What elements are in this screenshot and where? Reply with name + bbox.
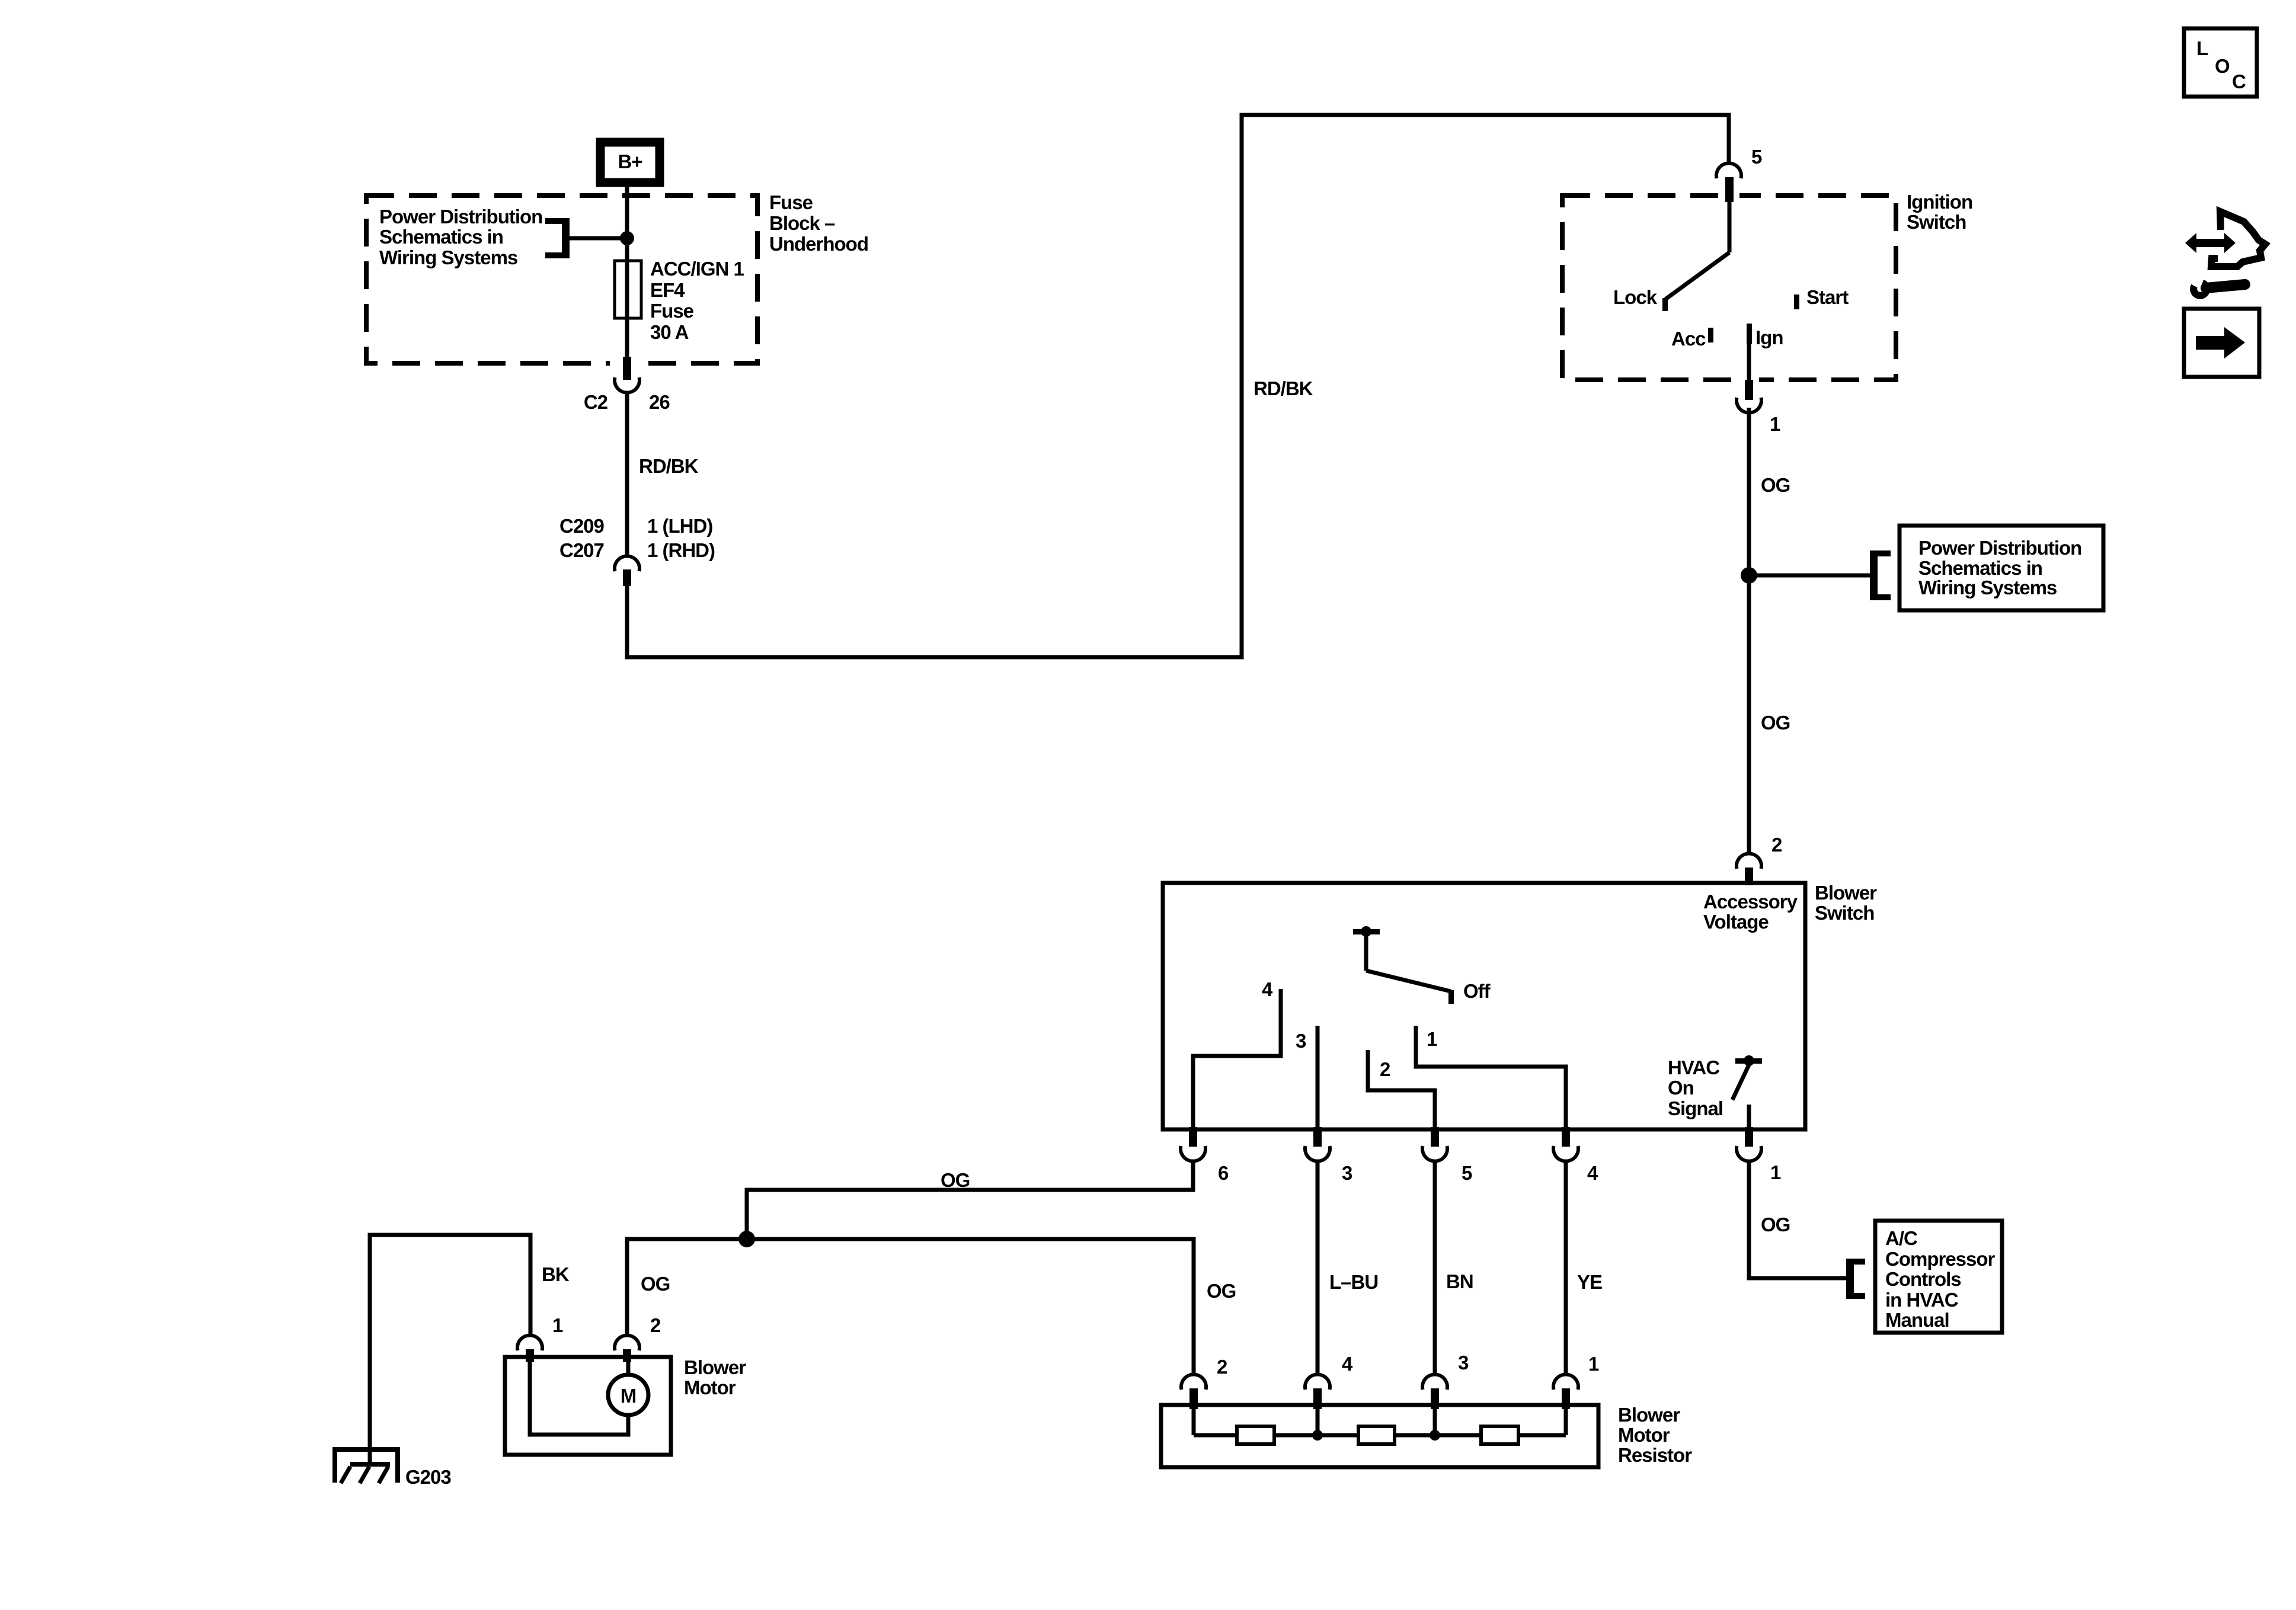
svg-text:OG: OG <box>641 1273 670 1295</box>
svg-text:in HVAC: in HVAC <box>1885 1289 1958 1311</box>
ignition Lock contact tick <box>1662 298 1668 311</box>
blower switch pin 5 <box>1422 1127 1447 1161</box>
svg-text:C209: C209 <box>559 515 605 537</box>
svg-text:26: 26 <box>649 391 670 413</box>
svg-text:Blower: Blower <box>684 1356 746 1378</box>
blower switch contact 2 wire <box>1368 1050 1435 1127</box>
svg-text:Ign: Ign <box>1755 327 1783 348</box>
svg-text:Controls: Controls <box>1885 1268 1961 1290</box>
junction node on B+ feed <box>620 231 634 245</box>
svg-text:RD/BK: RD/BK <box>1253 377 1313 399</box>
label Blower Switch <box>1815 882 1877 924</box>
fuse block underhood label <box>769 191 868 255</box>
blower switch pin 6 <box>1181 1127 1205 1161</box>
wire OG ignition to blower switch <box>1747 408 1751 854</box>
svg-text:4: 4 <box>1262 978 1273 1000</box>
svg-text:5: 5 <box>1462 1162 1472 1184</box>
svg-text:Power Distribution: Power Distribution <box>1918 537 2081 559</box>
blower switch pin 1 <box>1737 1127 1761 1161</box>
resistor internal feed 3 <box>1433 1409 1437 1435</box>
ground G203 symbol <box>332 1447 400 1483</box>
svg-text:3: 3 <box>1342 1162 1352 1184</box>
fuse block underhood dashed box <box>366 196 757 363</box>
connector resistor pin 4 <box>1305 1374 1330 1409</box>
svg-text:1: 1 <box>1770 1161 1781 1183</box>
svg-text:Ignition: Ignition <box>1907 191 1972 213</box>
svg-text:OG: OG <box>1761 474 1790 496</box>
label Blower Motor Resistor <box>1618 1404 1692 1466</box>
ignition Ign output wire <box>1747 341 1751 380</box>
svg-text:Wiring Systems: Wiring Systems <box>1918 577 2057 598</box>
svg-text:L: L <box>2196 37 2208 59</box>
icon vehicle outline <box>2211 212 2265 267</box>
HVAC on signal contact wire <box>1747 1105 1751 1127</box>
svg-text:Off: Off <box>1463 980 1491 1002</box>
resistor internal feed 1 <box>1564 1409 1568 1435</box>
ignition switch dashed box <box>1562 196 1896 380</box>
svg-text:OG: OG <box>1207 1280 1236 1302</box>
svg-text:Underhood: Underhood <box>769 233 868 255</box>
svg-text:4: 4 <box>1587 1162 1598 1184</box>
bracket for power distribution reference (fuse block) <box>545 218 570 258</box>
icon arrow box <box>2184 309 2259 377</box>
wire BK blower motor to ground <box>370 1235 530 1449</box>
svg-text:BN: BN <box>1446 1270 1473 1292</box>
blower switch pin 4 <box>1553 1127 1578 1161</box>
svg-text:HVAC: HVAC <box>1668 1057 1719 1078</box>
svg-text:ACC/IGN 1: ACC/IGN 1 <box>650 258 744 280</box>
blower switch contact 1 wire <box>1416 1026 1566 1127</box>
ignition Ign contact tick <box>1747 324 1752 344</box>
svg-text:Switch: Switch <box>1815 902 1874 924</box>
off switch lever <box>1366 971 1451 991</box>
fuse value labels <box>650 258 744 343</box>
ignition Start contact tick <box>1794 295 1799 309</box>
svg-text:5: 5 <box>1751 146 1762 168</box>
svg-text:30 A: 30 A <box>650 321 689 343</box>
connector C209/C207 cup <box>615 556 639 571</box>
wire BN <box>1433 1161 1437 1375</box>
svg-text:Resistor: Resistor <box>1618 1444 1692 1466</box>
svg-text:L–BU: L–BU <box>1329 1271 1378 1293</box>
wire OG pin 6 to junction <box>747 1161 1193 1239</box>
blower motor internal wiring <box>530 1361 628 1435</box>
svg-text:2: 2 <box>650 1314 661 1336</box>
connector blower switch pin 2 pin <box>1745 868 1753 885</box>
svg-text:1: 1 <box>1427 1028 1437 1050</box>
wire OG to A/C compressor controls <box>1749 1161 1846 1278</box>
svg-text:Schematics in: Schematics in <box>379 226 503 248</box>
wire OG horizontal run to blower motor and resistor pin 2 <box>627 1239 1194 1375</box>
svg-text:C2: C2 <box>584 391 608 413</box>
svg-text:OG: OG <box>1761 1214 1790 1235</box>
svg-text:3: 3 <box>1458 1352 1469 1374</box>
wire YE <box>1564 1161 1568 1375</box>
svg-text:Motor: Motor <box>684 1377 736 1398</box>
svg-text:4: 4 <box>1342 1353 1353 1375</box>
motor M circle <box>608 1375 648 1415</box>
label Accessory Voltage <box>1703 891 1798 933</box>
svg-text:G203: G203 <box>405 1466 451 1488</box>
svg-text:M: M <box>621 1385 637 1407</box>
resistor bus node 3 <box>1430 1430 1440 1441</box>
svg-text:1 (RHD): 1 (RHD) <box>647 539 715 561</box>
gap in dashed edge at ignition pin 5 <box>1721 190 1739 201</box>
label HVAC On Signal <box>1668 1057 1723 1119</box>
svg-text:Fuse: Fuse <box>769 191 813 213</box>
svg-text:3: 3 <box>1296 1030 1306 1052</box>
A/C compressor controls box <box>1875 1221 2002 1333</box>
wire branch to power distribution reference (right) <box>1749 574 1870 578</box>
off contact tick <box>1448 990 1454 1004</box>
svg-text:OG: OG <box>941 1169 970 1191</box>
gap in dashed edge at connector C2 pin <box>610 358 644 369</box>
svg-text:Block –: Block – <box>769 212 835 234</box>
svg-text:Acc: Acc <box>1671 328 1706 350</box>
connector C209/C207 pin <box>623 569 631 586</box>
ignition Acc contact tick <box>1708 328 1713 343</box>
svg-text:C: C <box>2232 71 2246 92</box>
connector ignition pin 1 cup <box>1737 398 1761 413</box>
fuse ACC/IGN 1 EF4 30 A symbol <box>615 261 641 318</box>
connector ignition pin 5 cup <box>1716 163 1741 178</box>
connector ignition pin 1 pin <box>1745 380 1753 400</box>
resistor internal feed 4 <box>1316 1409 1320 1435</box>
svg-text:Motor: Motor <box>1618 1424 1670 1446</box>
connector blower motor pin 2 <box>615 1335 639 1362</box>
svg-text:Wiring Systems: Wiring Systems <box>379 247 517 268</box>
text Power Distribution Schematics in Wiring Systems (right) <box>1918 537 2081 598</box>
svg-text:Schematics in: Schematics in <box>1918 557 2042 579</box>
connector resistor pin 3 <box>1422 1374 1447 1409</box>
blower motor box <box>505 1357 671 1455</box>
svg-text:A/C: A/C <box>1885 1227 1917 1249</box>
resistor internal feed 2 <box>1192 1409 1196 1435</box>
icon double arrow <box>2185 233 2236 253</box>
svg-text:OG: OG <box>1761 712 1790 734</box>
connector blower switch pin 2 cup <box>1737 853 1761 869</box>
blower switch contact 3 wire <box>1316 1026 1320 1127</box>
connector ignition pin 5 pin <box>1725 177 1734 202</box>
svg-text:RD/BK: RD/BK <box>639 455 699 477</box>
wire RD/BK C2 to C209 <box>625 393 629 556</box>
svg-text:1: 1 <box>552 1314 563 1336</box>
icon wrench <box>2193 283 2245 296</box>
svg-text:6: 6 <box>1218 1162 1229 1184</box>
bracket for A/C compressor reference <box>1846 1259 1865 1299</box>
junction node OG <box>738 1231 755 1247</box>
svg-text:1: 1 <box>1770 413 1780 435</box>
svg-text:Signal: Signal <box>1668 1097 1723 1119</box>
svg-text:Voltage: Voltage <box>1703 911 1769 933</box>
wire branch to power distribution reference <box>570 236 627 241</box>
HVAC on signal lever <box>1732 1065 1749 1100</box>
resistor element R1 <box>1237 1426 1274 1444</box>
svg-text:Compressor: Compressor <box>1885 1248 1996 1270</box>
ignition switch label <box>1907 191 1972 233</box>
battery terminal B+ box <box>600 142 660 183</box>
wire RD/BK long run to ignition switch <box>627 115 1729 657</box>
svg-text:2: 2 <box>1771 834 1782 856</box>
HVAC on signal switch pivot <box>1735 1055 1762 1066</box>
svg-text:BK: BK <box>542 1263 570 1285</box>
svg-text:Power Distribution: Power Distribution <box>379 206 542 228</box>
svg-text:On: On <box>1668 1077 1694 1099</box>
text A/C Compressor Controls in HVAC Manual <box>1885 1227 1996 1331</box>
off switch pivot <box>1353 926 1380 937</box>
connector C2 pin <box>623 357 631 380</box>
blower motor internal wire pin 2 to motor <box>626 1361 631 1375</box>
svg-text:YE: YE <box>1577 1271 1602 1293</box>
svg-text:Switch: Switch <box>1907 211 1966 233</box>
svg-text:Start: Start <box>1806 286 1849 308</box>
wire L-BU <box>1316 1161 1320 1375</box>
wire B+ feed down to fuse <box>625 187 629 363</box>
svg-text:C207: C207 <box>559 539 604 561</box>
resistor element R3 <box>1481 1426 1518 1444</box>
blower switch pin 3 <box>1305 1127 1330 1161</box>
bracket for power distribution reference (right) <box>1870 550 1891 600</box>
resistor element R2 <box>1358 1426 1395 1444</box>
junction node accessory voltage <box>1741 567 1757 584</box>
svg-text:EF4: EF4 <box>650 279 685 301</box>
svg-text:Fuse: Fuse <box>650 300 694 322</box>
resistor bus node 4 <box>1312 1430 1323 1441</box>
svg-text:Blower: Blower <box>1815 882 1877 904</box>
text Power Distribution Schematics in Wiring Systems (fuse block) <box>379 206 542 268</box>
connector blower motor pin 1 <box>517 1335 542 1362</box>
svg-text:Lock: Lock <box>1613 286 1658 308</box>
svg-text:2: 2 <box>1217 1356 1227 1378</box>
ignition switch lever <box>1665 252 1729 299</box>
svg-text:B+: B+ <box>618 151 642 172</box>
connector C2 cup <box>615 377 639 393</box>
connector resistor pin 2 <box>1181 1374 1206 1409</box>
svg-text:Blower: Blower <box>1618 1404 1680 1426</box>
gap in dashed edge at ignition pin 1 <box>1740 375 1759 386</box>
blower switch contact 4 wire <box>1193 989 1281 1127</box>
resistor bus wire <box>1194 1433 1566 1438</box>
svg-text:2: 2 <box>1380 1058 1390 1080</box>
off switch stem <box>1364 934 1368 971</box>
svg-text:Manual: Manual <box>1885 1309 1949 1331</box>
svg-text:Accessory: Accessory <box>1703 891 1798 913</box>
blower switch box <box>1163 883 1805 1129</box>
connector resistor pin 1 <box>1553 1374 1578 1409</box>
blower motor resistor box <box>1161 1405 1598 1467</box>
svg-text:1 (LHD): 1 (LHD) <box>647 515 712 537</box>
svg-text:1: 1 <box>1588 1353 1599 1375</box>
svg-text:O: O <box>2215 55 2230 77</box>
power distribution schematics reference box <box>1900 526 2103 610</box>
ignition internal wire from pin 5 <box>1728 202 1732 252</box>
icon LOC box <box>2184 28 2257 97</box>
label Blower Motor <box>684 1356 746 1398</box>
